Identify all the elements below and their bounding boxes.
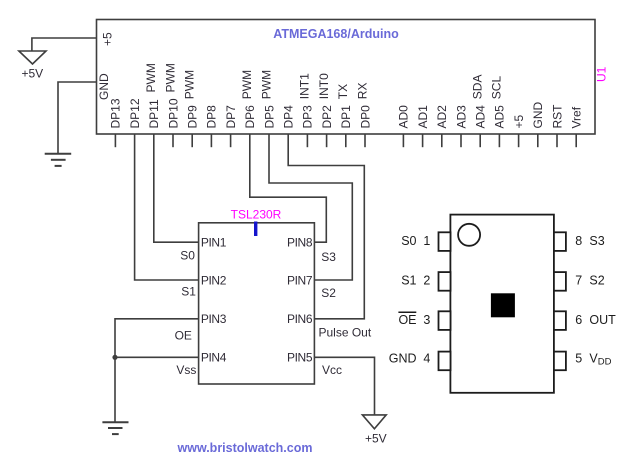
pin stub AD5 [498,134,500,147]
svg-text:INT1: INT1 [298,73,312,99]
svg-text:AD2: AD2 [435,105,449,129]
svg-text:6: 6 [575,313,582,327]
svg-text:SDA: SDA [471,75,485,100]
svg-text:Vref: Vref [570,106,584,128]
wire PIN3 (OE) to ground rail [115,319,199,422]
pin stub DP2 [326,134,328,147]
pin box 5 (right) [554,352,566,371]
svg-text:1: 1 [423,234,430,248]
svg-text:DP1: DP1 [339,105,353,129]
svg-text:PIN7: PIN7 [287,273,313,287]
svg-text:+5: +5 [512,114,526,128]
net label S1 [181,285,196,299]
pin label RST [550,104,564,129]
pin stub AD4 [479,134,481,147]
pin box 8 (right) [554,232,566,251]
svg-text:TX: TX [336,84,350,99]
pin label DP3 INT1 [298,73,315,129]
label www.bristolwatch.com [177,441,313,455]
svg-text:INT0: INT0 [317,73,331,99]
svg-text:DP2: DP2 [320,105,334,129]
svg-text:ATMEGA168/Arduino: ATMEGA168/Arduino [273,27,399,41]
wire PIN5 (Vcc) to power [314,357,374,415]
ground (top-left) [45,154,71,166]
IC package DIP-8 body [450,215,554,393]
pin label DP1 TX [336,84,353,129]
svg-text:PIN3: PIN3 [201,312,227,326]
pin label AD2 [435,105,449,129]
svg-text:PWM: PWM [240,70,254,99]
pin name PIN1 [201,236,227,250]
svg-text:www.bristolwatch.com: www.bristolwatch.com [177,441,313,455]
pin box 4 (left) [439,352,451,371]
svg-text:PWM: PWM [183,70,197,99]
svg-text:PIN6: PIN6 [287,312,313,326]
pin label DP7 [224,105,238,129]
pin box 6 (right) [554,311,566,330]
pin label GND (left edge) [97,73,111,100]
pin label DP10 PWM [163,63,180,128]
svg-text:Vss: Vss [176,363,196,377]
wire DP4 to PIN6 (Pulse Out) [288,134,364,319]
svg-text:PIN5: PIN5 [287,351,313,365]
svg-text:DP7: DP7 [224,105,238,129]
power +5V symbol (top-left) [19,51,46,64]
svg-text:S2: S2 [589,274,604,288]
svg-text:Vcc: Vcc [322,363,342,377]
svg-text:PWM: PWM [259,70,273,99]
pin label 5 VDD [575,351,611,367]
svg-text:S0: S0 [401,234,416,248]
pin stub DP0 [364,134,366,147]
wire GND to ground [58,82,97,154]
svg-text:8: 8 [575,234,582,248]
pin label AD5 SCL [490,76,507,129]
svg-text:S2: S2 [321,286,336,300]
pin stub RST [556,134,558,147]
svg-text:+5: +5 [101,32,115,46]
pin stub AD3 [460,134,462,147]
wire DP12 to PIN2 (S1) [135,134,199,280]
pin label S0 1 [401,234,430,248]
orientation tick (blue) [254,222,257,237]
svg-text:OE: OE [398,313,416,327]
net label S3 [321,250,336,264]
pin label OE-bar 3 [398,312,430,327]
svg-text:PWM: PWM [163,63,177,92]
pin stub GND [537,134,539,147]
pin name PIN6 [287,312,313,326]
svg-text:AD5: AD5 [493,105,507,129]
svg-text:3: 3 [423,313,430,327]
svg-text:GND: GND [389,351,417,365]
label +5V (top-left) [22,67,44,81]
pin stub AD0 [402,134,404,147]
sensor TSL230R body [199,223,315,384]
wire PIN4 (Vss) [115,356,199,358]
svg-text:DP8: DP8 [205,105,219,129]
svg-text:S3: S3 [589,234,604,248]
pin stub DP10 [172,134,174,147]
pin stub DP1 [345,134,347,147]
svg-text:GND: GND [531,102,545,129]
svg-text:DP0: DP0 [358,105,372,129]
svg-text:DP12: DP12 [128,98,142,128]
pin label AD1 [416,105,430,129]
pin label DP0 RX [355,83,372,129]
pin name PIN5 [287,351,313,365]
svg-text:S1: S1 [401,274,416,288]
pin stub DP9 [191,134,193,147]
pin label DP2 INT0 [317,73,334,129]
net label Pulse Out [319,326,372,340]
net label OE [175,329,192,343]
pin label Vref [570,106,584,128]
label TSL230R [231,208,282,222]
svg-text:DP6: DP6 [243,105,257,129]
sensor die (black square) [491,293,515,317]
pin label 6 OUT [575,313,616,327]
svg-text:S0: S0 [180,248,195,262]
svg-text:AD0: AD0 [397,105,411,129]
svg-text:4: 4 [423,351,430,365]
pin box 7 (right) [554,272,566,291]
svg-text:RST: RST [550,104,564,129]
svg-text:OUT: OUT [589,313,616,327]
svg-text:GND: GND [97,73,111,100]
pin box 1 (left) [439,232,451,251]
pin label AD4 SDA [471,75,488,129]
svg-text:+5V: +5V [22,67,44,81]
svg-text:DP11: DP11 [147,99,161,128]
pin label AD0 [397,105,411,129]
net label Vcc [322,363,342,377]
pin label S1 2 [401,274,430,288]
pin-1 indicator circle [458,224,480,246]
pin stub DP3 [306,134,308,147]
pin stub DP8 [210,134,212,147]
svg-text:2: 2 [423,274,430,288]
pin stub AD1 [422,134,424,147]
svg-text:AD4: AD4 [474,105,488,129]
svg-text:5: 5 [575,351,582,365]
svg-text:PIN2: PIN2 [201,273,227,287]
svg-text:DP3: DP3 [301,105,315,129]
pin label DP4 [282,105,296,129]
svg-text:DP10: DP10 [166,98,180,128]
pin label +5 (left edge) [101,32,115,46]
pin label DP13 [109,98,123,128]
svg-text:SCL: SCL [490,76,504,100]
pin name PIN4 [201,351,227,365]
svg-text:TSL230R: TSL230R [231,208,282,222]
pin label DP6 PWM [240,70,257,129]
pin label DP12 [128,98,142,128]
wire DP11 to PIN1 (S0) [154,134,199,242]
net label S0 [180,248,195,262]
wire DP6 to PIN8 (S3) [250,134,326,242]
pin box 3 (left) [439,311,451,330]
pin label DP8 [205,105,219,129]
ground (bottom-left) [102,422,128,434]
svg-text:PIN1: PIN1 [201,236,227,250]
pin label AD3 [454,105,468,129]
svg-text:DP13: DP13 [109,98,123,128]
net label Vss [176,363,196,377]
junction (Vss/OE ground) [112,355,117,360]
label +5V (bottom) [365,432,387,446]
pin label DP5 PWM [259,70,276,129]
svg-text:RX: RX [355,83,369,100]
reference designator U1 [595,66,609,82]
svg-text:U1: U1 [595,66,609,82]
pin box 2 (left) [439,272,451,291]
svg-text:7: 7 [575,274,582,288]
pin stub DP13 [114,134,116,147]
pin stub DP7 [230,134,232,147]
svg-text:+5V: +5V [365,432,387,446]
svg-text:S1: S1 [181,285,196,299]
pin name PIN3 [201,312,227,326]
wire +5 to power [32,38,97,51]
net label S2 [321,286,336,300]
wire DP5 to PIN7 (S2) [269,134,352,280]
pin name PIN7 [287,273,313,287]
svg-text:DP4: DP4 [282,105,296,129]
svg-text:DP9: DP9 [186,105,200,129]
pin label GND [531,102,545,129]
svg-text:PIN4: PIN4 [201,351,227,365]
svg-text:DP5: DP5 [262,105,276,129]
pin label GND 4 [389,351,431,365]
pin label 7 S2 [575,274,605,288]
svg-text:PIN8: PIN8 [287,236,313,250]
svg-text:Pulse Out: Pulse Out [319,326,372,340]
op-amp U1 ATMEGA168/Arduino body [97,20,596,135]
svg-text:PWM: PWM [144,63,158,92]
pin label DP9 PWM [183,70,200,129]
svg-text:DD: DD [598,357,612,368]
pin stub +5 [518,134,520,147]
pin stub Vref [575,134,577,147]
pin name PIN8 [287,236,313,250]
pin label 8 S3 [575,234,605,248]
svg-text:OE: OE [175,329,192,343]
svg-text:S3: S3 [321,250,336,264]
pin stub AD2 [441,134,443,147]
pin label DP11 PWM [144,63,161,128]
pin label +5 [512,114,526,128]
power +5V symbol (bottom) [362,415,386,429]
svg-text:AD3: AD3 [454,105,468,129]
svg-text:AD1: AD1 [416,105,430,129]
label ATMEGA168/Arduino [273,27,399,41]
pin name PIN2 [201,273,227,287]
